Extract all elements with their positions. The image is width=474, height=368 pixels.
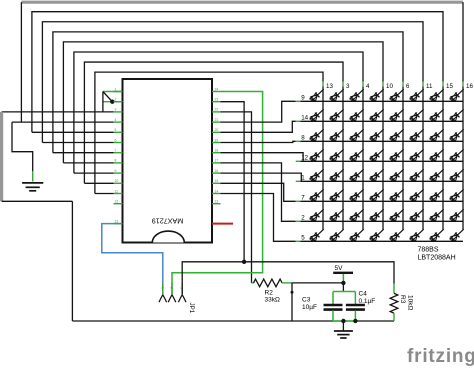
LED row 9 col 13 bbox=[310, 89, 324, 101]
LED row 2 col 15 bbox=[430, 209, 444, 221]
IC right pin 22 bbox=[212, 111, 221, 113]
wire IC pin row to arch bbox=[53, 152, 114, 154]
IC left pin 8 bbox=[114, 162, 123, 164]
LED row 14 col 10 bbox=[370, 109, 384, 121]
svg-text:R3: R3 bbox=[399, 295, 406, 304]
LED row 2 col 4 bbox=[350, 209, 364, 221]
svg-text:20: 20 bbox=[215, 128, 219, 132]
svg-text:6: 6 bbox=[406, 83, 410, 90]
LED row 1 col 4 bbox=[350, 169, 364, 181]
LED row 9 col 6 bbox=[390, 89, 404, 101]
svg-text:17: 17 bbox=[215, 159, 219, 163]
svg-text:788BS: 788BS bbox=[418, 247, 439, 254]
svg-text:fritzing: fritzing bbox=[407, 346, 474, 367]
wire to ground bbox=[12, 122, 33, 171]
matrix row pin 9 bbox=[296, 100, 301, 102]
svg-text:10: 10 bbox=[386, 83, 393, 90]
LED row 2 col 6 bbox=[390, 209, 404, 221]
wire to matrix row 12 bbox=[221, 153, 304, 162]
svg-text:LBT2088AH: LBT2088AH bbox=[418, 255, 456, 262]
LED row 12 col 4 bbox=[350, 149, 364, 161]
svg-text:13: 13 bbox=[215, 200, 219, 204]
matrix row pin 5 bbox=[296, 240, 301, 242]
wire to matrix row 14 bbox=[221, 121, 296, 132]
svg-text:8: 8 bbox=[115, 159, 117, 163]
wire ground rail bbox=[72, 320, 394, 322]
IC right pin 23 bbox=[212, 101, 221, 103]
wire IC pin4 row bbox=[12, 121, 114, 123]
svg-text:14: 14 bbox=[215, 189, 219, 193]
LED row 5 col 4 bbox=[350, 229, 364, 241]
JP1 pin 1 bbox=[162, 283, 164, 295]
IC notch bbox=[152, 231, 184, 242]
svg-text:21: 21 bbox=[215, 118, 219, 122]
IC right pin 15 bbox=[212, 182, 221, 184]
matrix row pin 2 bbox=[296, 220, 301, 222]
wire bbox=[2, 200, 73, 202]
svg-text:3: 3 bbox=[115, 108, 117, 112]
svg-text:22: 22 bbox=[215, 108, 219, 112]
LED row 5 col 11 bbox=[410, 229, 424, 241]
wire IC pin2 green bbox=[103, 101, 123, 103]
wire to matrix row 5 bbox=[221, 194, 296, 242]
LED row 8 col 10 bbox=[370, 129, 384, 141]
LED row 12 col 13 bbox=[310, 149, 324, 161]
svg-text:2: 2 bbox=[115, 98, 117, 102]
LED row 5 col 15 bbox=[430, 229, 444, 241]
svg-text:12: 12 bbox=[115, 200, 119, 204]
svg-text:12: 12 bbox=[301, 155, 308, 162]
LED row 5 col 16 bbox=[450, 229, 464, 241]
svg-text:MAX7219: MAX7219 bbox=[152, 217, 184, 226]
svg-text:11: 11 bbox=[115, 189, 119, 193]
svg-text:0.1µF: 0.1µF bbox=[359, 298, 376, 305]
LED row 9 col 15 bbox=[430, 89, 444, 101]
LED row 7 col 11 bbox=[410, 189, 424, 201]
ground pin bbox=[32, 171, 34, 182]
svg-text:19: 19 bbox=[215, 138, 219, 142]
svg-text:JP1: JP1 bbox=[188, 303, 195, 314]
matrix column pin 4 bbox=[362, 82, 364, 87]
wire bbox=[102, 92, 104, 112]
svg-text:10µF: 10µF bbox=[302, 304, 317, 311]
LED row 7 col 15 bbox=[430, 189, 444, 201]
IC right pin 20 bbox=[212, 131, 221, 133]
svg-text:3: 3 bbox=[346, 83, 350, 90]
LED row 8 col 4 bbox=[350, 129, 364, 141]
wire green IC pin24 to JP1 pin2 bbox=[172, 92, 263, 295]
wire gray left edge bbox=[0, 112, 3, 201]
wire bbox=[291, 283, 293, 321]
bendpoint bbox=[291, 291, 294, 294]
LED row 7 col 3 bbox=[330, 189, 344, 201]
LED row 7 col 4 bbox=[350, 189, 364, 201]
LED row 8 col 6 bbox=[390, 129, 404, 141]
ground bbox=[342, 321, 344, 331]
LED row 12 col 6 bbox=[390, 149, 404, 161]
wire to matrix row 7 bbox=[221, 183, 296, 201]
wire arch to matrix column bbox=[95, 72, 323, 193]
wire arch to matrix column bbox=[74, 52, 363, 173]
matrix column pin 13 bbox=[322, 82, 324, 87]
wire IC pin row to arch bbox=[42, 142, 113, 144]
wire bbox=[71, 201, 73, 321]
LED row 14 col 4 bbox=[350, 109, 364, 121]
LED row 1 col 15 bbox=[430, 169, 444, 181]
matrix row pin 1 bbox=[296, 180, 301, 182]
LED row 8 col 3 bbox=[330, 129, 344, 141]
LED row 1 col 3 bbox=[330, 169, 344, 181]
LED row 8 col 16 bbox=[450, 129, 464, 141]
LED row 12 col 10 bbox=[370, 149, 384, 161]
resistor R3 bbox=[393, 284, 395, 294]
LED row 14 col 3 bbox=[330, 109, 344, 121]
svg-text:1: 1 bbox=[301, 175, 305, 182]
svg-text:1: 1 bbox=[160, 287, 164, 289]
svg-text:18: 18 bbox=[215, 149, 219, 153]
LED row 2 col 11 bbox=[410, 209, 424, 221]
LED row 5 col 3 bbox=[330, 229, 344, 241]
matrix row pin 8 bbox=[296, 140, 301, 142]
svg-text:1: 1 bbox=[115, 87, 117, 91]
wire JP1 pin3 net bbox=[182, 262, 394, 295]
LED row 7 col 10 bbox=[370, 189, 384, 201]
IC left pin DIN bbox=[114, 223, 123, 225]
wire arch to matrix column bbox=[32, 12, 443, 133]
resistor R2 bbox=[252, 282, 254, 284]
IC right pin 18 bbox=[212, 152, 221, 154]
op-amp U1 MAX7219 IC body bbox=[123, 79, 213, 243]
JP1 pin 3 bbox=[181, 283, 183, 295]
wire gray top arch (IC pin 4 net to matrix pin 16 column) bbox=[21, 1, 463, 4]
LED row 1 col 11 bbox=[410, 169, 424, 181]
LED row 2 col 3 bbox=[330, 209, 344, 221]
svg-text:13: 13 bbox=[115, 219, 119, 223]
svg-text:5: 5 bbox=[301, 235, 305, 242]
svg-text:2: 2 bbox=[170, 287, 174, 289]
wire IC pin23 to CLK net bbox=[221, 102, 245, 262]
LED row 1 col 6 bbox=[390, 169, 404, 181]
wire IC pin row to arch bbox=[32, 131, 114, 133]
wire to matrix row 2 bbox=[221, 163, 296, 221]
LED row 14 col 15 bbox=[430, 109, 444, 121]
wire arch to matrix column bbox=[63, 42, 383, 163]
matrix row pin 12 bbox=[296, 160, 301, 162]
JP1 pin 2 bbox=[171, 283, 173, 295]
matrix column pin 6 bbox=[402, 82, 404, 87]
LED row 5 col 10 bbox=[370, 229, 384, 241]
IC left pin 2 bbox=[114, 101, 123, 103]
LED row 8 col 11 bbox=[410, 129, 424, 141]
svg-text:11: 11 bbox=[426, 83, 433, 90]
wire IC pin1 green bbox=[103, 91, 123, 93]
wire to matrix row 9 bbox=[221, 101, 296, 122]
wire IC pin22 to R2 bbox=[221, 112, 252, 283]
svg-text:5: 5 bbox=[115, 128, 117, 132]
junction bbox=[341, 319, 345, 323]
IC right pin 19 bbox=[212, 142, 221, 144]
LED row 12 col 3 bbox=[330, 149, 344, 161]
svg-text:15: 15 bbox=[215, 179, 219, 183]
wire red V+ bbox=[212, 223, 233, 225]
junction bbox=[110, 100, 114, 104]
svg-text:5V: 5V bbox=[335, 265, 344, 272]
svg-text:7: 7 bbox=[301, 195, 305, 202]
LED row 14 col 6 bbox=[390, 109, 404, 121]
svg-text:R2: R2 bbox=[265, 290, 274, 297]
svg-text:9: 9 bbox=[115, 169, 117, 173]
ground symbol bbox=[22, 182, 43, 184]
wire blue to JP1 pin1 bbox=[102, 224, 163, 295]
LED row 1 col 13 bbox=[310, 169, 324, 181]
svg-text:4: 4 bbox=[115, 118, 117, 122]
svg-text:14: 14 bbox=[301, 115, 308, 122]
LED row 8 col 13 bbox=[310, 129, 324, 141]
matrix column pin 10 bbox=[382, 82, 384, 87]
LED row 9 col 11 bbox=[410, 89, 424, 101]
wire IC pin row to arch bbox=[95, 193, 114, 195]
wire bbox=[462, 2, 464, 81]
IC right pin 17 bbox=[212, 162, 221, 164]
IC left pin 1 bbox=[114, 91, 123, 93]
matrix column pin 3 bbox=[342, 82, 344, 87]
svg-text:33kΩ: 33kΩ bbox=[265, 297, 280, 304]
IC left pin 4 bbox=[114, 121, 123, 123]
LED row 1 col 10 bbox=[370, 169, 384, 181]
svg-text:15: 15 bbox=[446, 83, 453, 90]
LED row 14 col 11 bbox=[410, 109, 424, 121]
svg-text:10kΩ: 10kΩ bbox=[407, 295, 414, 310]
wire bbox=[20, 2, 22, 122]
matrix row pin 7 bbox=[296, 200, 301, 202]
IC right pin 21 bbox=[212, 121, 221, 123]
matrix row pin 14 bbox=[296, 120, 301, 122]
wire IC pin row to arch bbox=[63, 162, 113, 164]
svg-text:16: 16 bbox=[215, 169, 219, 173]
IC left pin 6 bbox=[114, 142, 123, 144]
wire arch to matrix column bbox=[42, 22, 423, 143]
LED row 8 col 15 bbox=[430, 129, 444, 141]
junction bbox=[353, 319, 357, 323]
svg-text:6: 6 bbox=[115, 138, 117, 142]
wire to matrix row 1 bbox=[221, 173, 302, 181]
LED row 9 col 10 bbox=[370, 89, 384, 101]
capacitor C4 bbox=[354, 292, 356, 305]
LED row 2 col 13 bbox=[310, 209, 324, 221]
IC right pin V+ bbox=[212, 223, 221, 225]
IC right pin 24 bbox=[212, 91, 221, 93]
junction bbox=[242, 260, 246, 264]
LED row 9 col 4 bbox=[350, 89, 364, 101]
IC left pin 12 bbox=[114, 203, 123, 205]
wire IC pin3 to left edge bbox=[2, 111, 114, 113]
wire diagonal bbox=[103, 92, 112, 102]
svg-text:7: 7 bbox=[115, 149, 117, 153]
svg-text:C3: C3 bbox=[302, 297, 311, 304]
LED row 12 col 16 bbox=[450, 149, 464, 161]
svg-text:9: 9 bbox=[301, 95, 305, 102]
LED row 7 col 16 bbox=[450, 189, 464, 201]
IC right pin 14 bbox=[212, 193, 221, 195]
IC left pin 7 bbox=[114, 152, 123, 154]
IC right pin 13 bbox=[212, 203, 221, 205]
svg-text:4: 4 bbox=[366, 83, 370, 90]
LED row 9 col 16 bbox=[450, 89, 464, 101]
wire arch to matrix column bbox=[84, 62, 343, 183]
wire arch to matrix column bbox=[53, 32, 403, 153]
IC left pin 11 bbox=[114, 193, 123, 195]
matrix column pin 15 bbox=[442, 82, 444, 87]
LED row 12 col 11 bbox=[410, 149, 424, 161]
wire IC pin row to arch bbox=[84, 182, 113, 184]
wire bbox=[342, 283, 344, 292]
svg-text:C4: C4 bbox=[359, 291, 368, 298]
svg-text:24: 24 bbox=[215, 87, 219, 91]
svg-text:10: 10 bbox=[115, 179, 119, 183]
LED row 14 col 13 bbox=[310, 109, 324, 121]
capacitor C3 bbox=[332, 292, 334, 305]
svg-text:13: 13 bbox=[326, 83, 333, 90]
IC left pin 10 bbox=[114, 182, 123, 184]
LED row 2 col 16 bbox=[450, 209, 464, 221]
matrix column pin 11 bbox=[422, 82, 424, 87]
wire cap bottom rail bbox=[333, 320, 355, 322]
LED row 7 col 13 bbox=[310, 189, 324, 201]
IC left pin 9 bbox=[114, 172, 123, 174]
LED row 12 col 15 bbox=[430, 149, 444, 161]
wire IC pin row to arch bbox=[74, 172, 114, 174]
svg-text:8: 8 bbox=[301, 135, 305, 142]
junction bbox=[341, 281, 345, 285]
IC left pin 3 bbox=[114, 111, 123, 113]
LED row 2 col 10 bbox=[370, 209, 384, 221]
wire 5V feed bbox=[292, 282, 343, 284]
svg-text:2: 2 bbox=[301, 215, 305, 222]
LED row 1 col 16 bbox=[450, 169, 464, 181]
matrix column pin 16 bbox=[462, 82, 464, 87]
IC right pin 16 bbox=[212, 172, 221, 174]
LED row 9 col 3 bbox=[330, 89, 344, 101]
LED row 5 col 13 bbox=[310, 229, 324, 241]
LED row 7 col 6 bbox=[390, 189, 404, 201]
svg-text:16: 16 bbox=[466, 83, 473, 90]
IC left pin 5 bbox=[114, 131, 123, 133]
LED row 14 col 16 bbox=[450, 109, 464, 121]
wire cap top rail bbox=[333, 291, 355, 293]
LED row 5 col 6 bbox=[390, 229, 404, 241]
svg-text:23: 23 bbox=[215, 98, 219, 102]
wire to matrix row 8 bbox=[221, 141, 296, 142]
